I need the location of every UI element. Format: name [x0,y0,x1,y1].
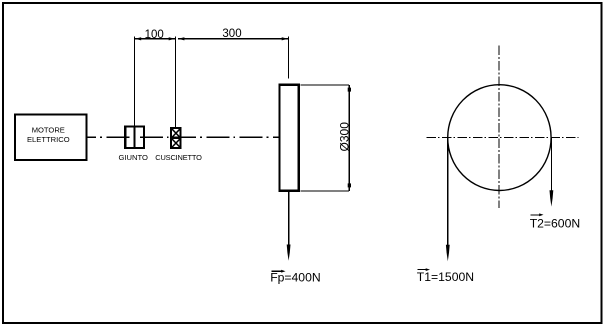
force line Fp below disc [288,191,290,247]
svg-text:100: 100 [145,29,164,41]
force label Fp vector bar [272,270,284,272]
svg-text:CUSCINETTO: CUSCINETTO [155,153,202,162]
shaft centerline (dash-dot) [87,136,279,138]
dimension line 100 [135,38,176,40]
svg-text:300: 300 [222,28,241,40]
tension label T2 vector bar [531,214,542,216]
diameter dim top arrowhead [348,88,351,92]
coupling GIUNTO symbol [125,127,144,149]
diameter dim bottom arrowhead [348,183,351,187]
diameter dimension line [348,85,350,191]
circle horizontal centerline [426,136,578,138]
svg-text:MOTORE: MOTORE [32,126,65,135]
dimension line 300 [178,38,288,40]
tension arrowhead T1 [446,245,450,261]
svg-text:T2=600N: T2=600N [530,216,580,230]
tension label T1 vector bar [418,269,428,271]
svg-text:ELETTRICO: ELETTRICO [27,135,70,144]
force arrowhead Fp [287,245,291,261]
tension arrowhead T2 [550,190,554,206]
dim-300 right arrowhead [282,37,288,40]
diameter dim top extension line [301,84,350,86]
belt tension line T1 [447,138,449,248]
svg-text:GIUNTO: GIUNTO [118,153,147,162]
dim-300 left arrowhead [178,37,184,40]
diameter dim bottom extension line [301,190,350,192]
dimension extension line at disc [287,37,289,79]
belt tension line T2 [550,138,552,194]
pulley circle front view [448,85,551,191]
bearing CUSCINETTO symbol [171,128,181,148]
dim-100 left arrowhead [135,37,141,40]
circle vertical centerline [498,46,500,209]
dim-100 right arrowhead [169,37,175,40]
motor box M1 [15,115,87,161]
svg-text:Ø300: Ø300 [338,122,352,152]
dimension extension line at coupling [134,37,136,127]
svg-text:Fp=400N: Fp=400N [270,270,320,284]
disc side view rectangle [280,85,299,191]
dimension extension line at bearing [174,37,176,128]
svg-text:T1=1500N: T1=1500N [417,270,474,284]
